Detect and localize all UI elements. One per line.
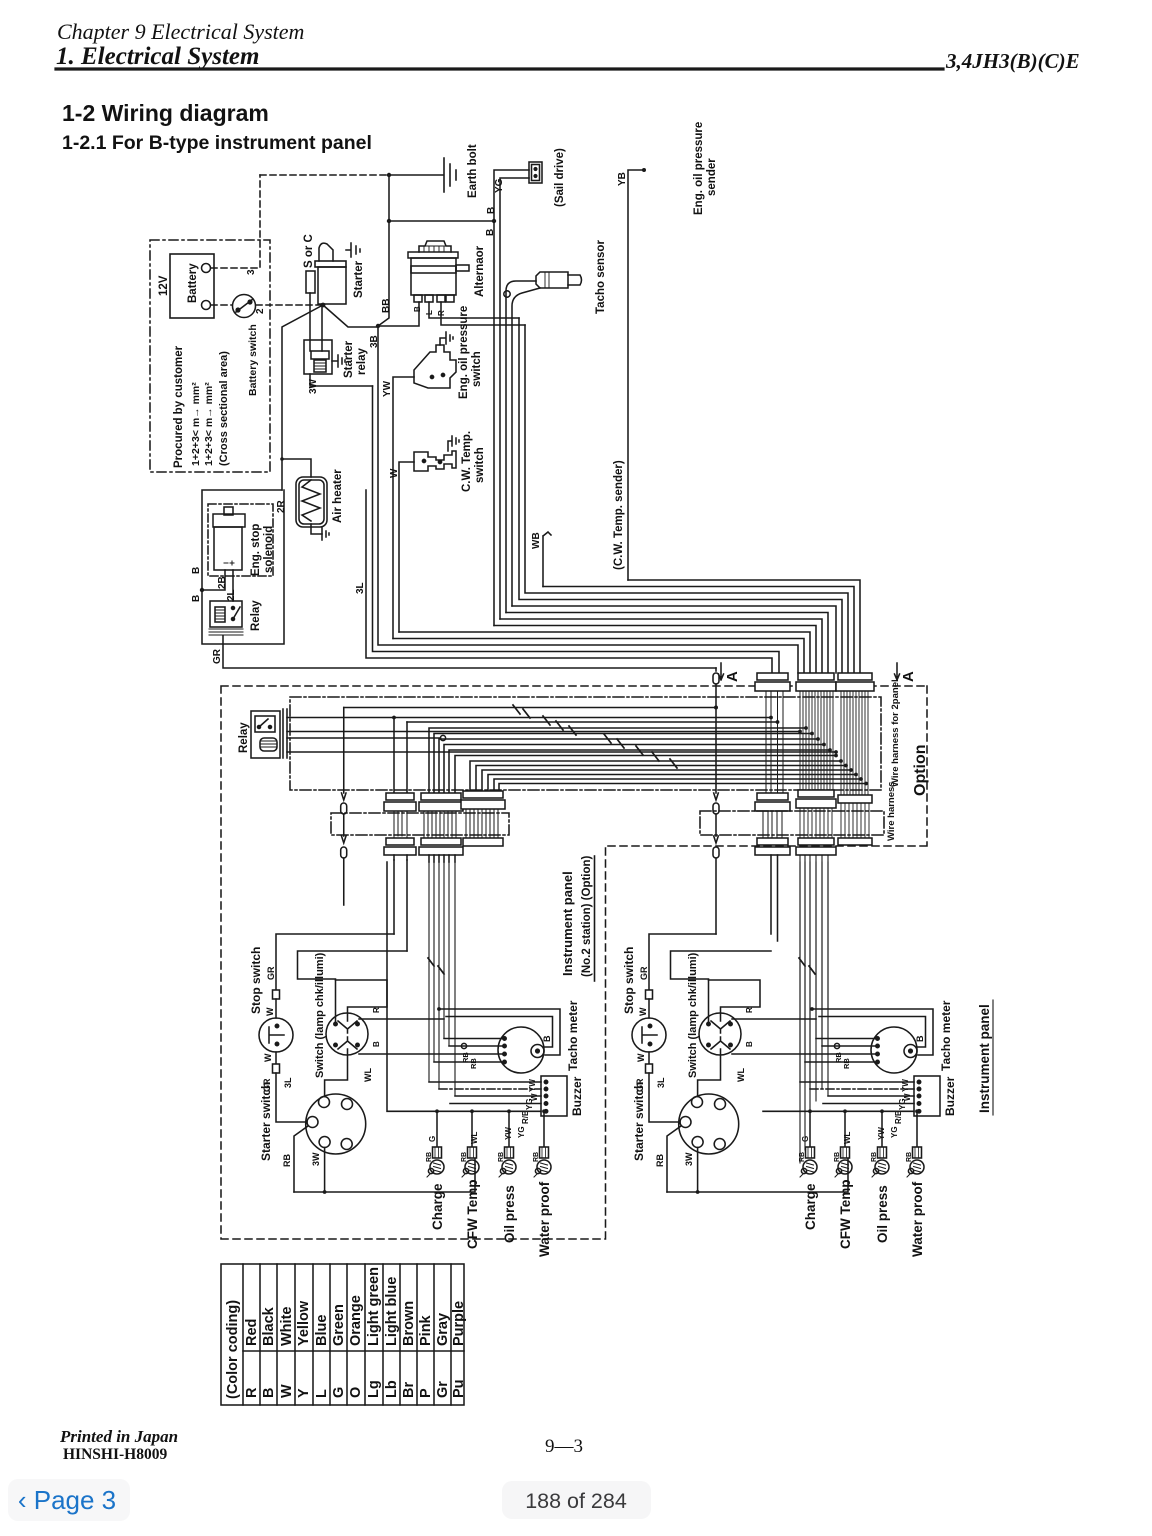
svg-text:GR: GR (639, 966, 649, 980)
eng stop solenoid boundary (208, 504, 273, 576)
ground starter (346, 243, 360, 257)
svg-text:Battery switch: Battery switch (247, 324, 259, 396)
wire tacho B loop inner (819, 1017, 926, 1048)
svg-text:G: G (331, 1387, 347, 1398)
node B-wire junction (200, 588, 204, 592)
svg-text:YG: YG (517, 1126, 526, 1138)
svg-text:B: B (191, 567, 202, 574)
svg-text:WL: WL (470, 1131, 479, 1144)
connector tick stop switch upper (273, 990, 280, 999)
lamp feeds (436, 1111, 438, 1147)
svg-text:R: R (372, 1007, 381, 1013)
svg-text:Green: Green (331, 1304, 347, 1346)
svg-text:RB: RB (469, 1058, 478, 1069)
svg-text:Instrument panel: Instrument panel (977, 1004, 992, 1113)
node wire2 at stack D (776, 720, 780, 724)
stop switch S4 (259, 1018, 293, 1052)
wire alternator R terminal (441, 302, 525, 325)
svg-text:B: B (413, 306, 422, 312)
node starter battery node (321, 303, 326, 308)
eng stop solenoid enclosure (202, 490, 284, 644)
eng oil pressure switch S2 (414, 345, 456, 388)
svg-text:switch: switch (471, 351, 483, 387)
svg-text:Stop switch: Stop switch (622, 947, 636, 1014)
wire single chain right GR (713, 668, 719, 934)
svg-text:Switch (lamp chk/illumi): Switch (lamp chk/illumi) (687, 952, 699, 1078)
svg-text:2R: 2R (276, 499, 287, 513)
nodes stack F diagonal (839, 759, 868, 785)
svg-text:B: B (191, 595, 202, 602)
svg-text:YW: YW (382, 380, 393, 397)
connector tick stop switch lower (273, 1064, 280, 1073)
svg-text:B: B (486, 207, 497, 214)
cw temp switch label (461, 431, 486, 492)
wire taps to buzzer (800, 1082, 914, 1104)
svg-text:A: A (724, 671, 741, 682)
svg-text:Orange: Orange (348, 1295, 364, 1346)
lamp Oil press (872, 1147, 889, 1177)
svg-text:YB: YB (617, 172, 628, 186)
svg-text:Printed in Japan: Printed in Japan (59, 1427, 178, 1446)
wire switch lower stem to starter (698, 1049, 721, 1097)
svg-text:3L: 3L (656, 1077, 666, 1088)
wire starter node to BB node (323, 305, 378, 327)
lamp CFW Temp (835, 1147, 852, 1177)
svg-text:A: A (900, 671, 917, 682)
PAGE HEADER (56, 19, 1080, 73)
alternator pin labels (413, 306, 446, 316)
wire battery switch to starter node (256, 304, 322, 306)
svg-text:B: B (745, 1041, 754, 1047)
connector chain left arrows and sleeves (341, 793, 347, 905)
wire stop switch to starter (649, 1073, 680, 1122)
wire GR to stop switch (649, 934, 716, 990)
svg-text:Lg: Lg (366, 1380, 382, 1398)
svg-text:RB: RB (655, 1154, 665, 1167)
wire switch lower stem to starter (325, 1049, 348, 1097)
wire tap dash-dot (810, 1088, 914, 1090)
svg-text:12V: 12V (158, 275, 170, 296)
svg-text:Water proof: Water proof (910, 1181, 925, 1257)
wire tap dash-dot (439, 1088, 541, 1090)
relay K2 eng-stop (209, 601, 243, 635)
wire B horizontal to sail-drive wire (389, 220, 494, 222)
svg-text:W: W (263, 1053, 273, 1062)
wire relay coil a (287, 737, 441, 739)
svg-text:Procured by customer: Procured by customer (173, 345, 185, 468)
wire relay coil b (287, 751, 836, 753)
wire top dashed rail (260, 174, 389, 176)
wire air heater feed (282, 459, 311, 477)
svg-text:1-2 Wiring diagram: 1-2 Wiring diagram (62, 100, 269, 126)
crossover ticks bundle (799, 958, 815, 974)
svg-text:G: G (801, 1136, 810, 1142)
svg-text:WL: WL (736, 1068, 746, 1082)
svg-text:Tacho meter: Tacho meter (566, 1000, 580, 1071)
svg-text:solenoid: solenoid (263, 526, 275, 573)
wire taps to tacho (434, 1039, 505, 1063)
svg-text:Starter switch: Starter switch (632, 1082, 646, 1161)
wire W stair (399, 632, 810, 673)
alternator G1 (408, 241, 469, 302)
svg-text:Y: Y (296, 1388, 312, 1398)
svg-text:YG: YG (898, 1098, 907, 1110)
connector tick stop switch upper (646, 990, 653, 999)
crossover ticks bundle (428, 958, 444, 974)
wire 3W from starter (324, 1148, 326, 1193)
connector stack F (836, 673, 874, 845)
crossover ticks chain 1 (513, 705, 576, 735)
svg-text:W: W (279, 1384, 295, 1398)
svg-text:Tacho meter: Tacho meter (939, 1000, 953, 1071)
ground earth bolt (444, 158, 456, 192)
svg-text:Oil press: Oil press (502, 1185, 517, 1243)
svg-text:Starter switch: Starter switch (259, 1082, 273, 1161)
svg-text:1+2+3< m→ mm²: 1+2+3< m→ mm² (190, 382, 202, 466)
svg-text:Gray: Gray (435, 1313, 451, 1346)
wire stack A1 GR down (393, 860, 395, 934)
svg-text:3,4JH3(B)(C)E: 3,4JH3(B)(C)E (945, 49, 1080, 73)
svg-text:HINSHI-H8009: HINSHI-H8009 (63, 1446, 167, 1463)
air heater R1 (296, 477, 327, 527)
svg-text:W: W (638, 1007, 648, 1016)
wire W to cw temp switch (399, 462, 414, 632)
starter relay K1 (304, 340, 332, 374)
svg-text:Earth bolt: Earth bolt (467, 144, 479, 198)
tacho meter P1 (498, 1027, 544, 1073)
lamp-check switch S5 (326, 1013, 368, 1055)
node wire1 tee (392, 716, 396, 720)
connector ring on tacho wire (834, 1043, 839, 1048)
svg-text:R: R (244, 1387, 260, 1398)
starter switch S6 (306, 1094, 366, 1154)
svg-text:G: G (428, 1136, 437, 1142)
svg-text:3W: 3W (308, 378, 319, 394)
svg-text:WL: WL (363, 1068, 373, 1082)
svg-text:RB: RB (834, 1152, 841, 1162)
wire option feed top (344, 707, 716, 709)
node feed joins GR chain (714, 706, 718, 710)
wire 3L vertical (366, 490, 772, 673)
wire harness band left (331, 813, 509, 835)
connector tick stop switch lower (646, 1064, 653, 1073)
svg-text:1+2+3< m→ mm²: 1+2+3< m→ mm² (203, 382, 215, 466)
svg-text:3W: 3W (684, 1152, 694, 1166)
svg-text:YG: YG (890, 1126, 899, 1138)
svg-text:Wire harness: Wire harness (886, 781, 897, 841)
node contact2 at stack E (798, 730, 802, 734)
svg-text:RB: RB (282, 1154, 292, 1167)
svg-text:Blue: Blue (314, 1315, 330, 1346)
wire B bus from rail down (388, 175, 390, 221)
wire lamp common R/B (387, 862, 541, 1111)
svg-text:O: O (348, 1387, 364, 1398)
customer-supply boundary box (150, 240, 270, 472)
option inner harness boundary (290, 697, 881, 790)
svg-text:YW: YW (504, 1127, 513, 1140)
wire stop switch lower (275, 1052, 277, 1064)
wire tacho lower stair (512, 606, 836, 673)
wire alternator L terminal (429, 302, 519, 318)
svg-text:(Sail drive): (Sail drive) (554, 148, 566, 207)
svg-text:P: P (418, 1388, 434, 1398)
lamp Water proof (907, 1147, 924, 1177)
wire starter node to solenoid-box drop (282, 305, 323, 490)
tacho sensor ring (504, 291, 510, 297)
wire alt L stair (519, 318, 842, 673)
page footer imprint (59, 1427, 583, 1463)
lamp feeds (809, 1111, 811, 1147)
wire solenoid 2L lead to relay (232, 570, 234, 601)
svg-text:R/B: R/B (894, 1110, 903, 1124)
node coil b at stack F (834, 750, 838, 754)
stop switch S4 (632, 1018, 666, 1052)
ground eng oil pressure switch (440, 332, 453, 345)
wire tacho upper stair (506, 613, 828, 674)
svg-text:Br: Br (401, 1382, 417, 1398)
svg-text:Light blue: Light blue (384, 1277, 400, 1346)
lamp Oil press (499, 1147, 516, 1177)
wire relay contact 1 (287, 717, 771, 719)
svg-text:Tacho sensor: Tacho sensor (595, 240, 607, 314)
wire BB to alternator B terminal (378, 302, 419, 326)
svg-text:RB: RB (426, 1152, 433, 1162)
svg-text:L: L (314, 1389, 330, 1398)
procured-by-customer note (173, 345, 230, 468)
crossover ticks chain 2 (604, 734, 677, 768)
wire switch R contact taps (732, 1018, 816, 1020)
svg-text:CFW Temp: CFW Temp (838, 1180, 853, 1250)
wire lamp common R/B (763, 1110, 914, 1112)
svg-text:C.W. Temp.: C.W. Temp. (461, 431, 473, 492)
svg-text:Alternaor: Alternaor (474, 245, 486, 297)
wire 3W stair (373, 386, 780, 673)
wire sail upper stair (494, 626, 816, 674)
svg-text:2: 2 (255, 308, 266, 314)
wire bundle E continuation (800, 862, 828, 1096)
svg-text:W: W (636, 1053, 646, 1062)
wire rail to earth bolt (389, 174, 443, 176)
svg-text:Switch (lamp chk/illumi): Switch (lamp chk/illumi) (314, 952, 326, 1078)
svg-text:W: W (389, 468, 400, 478)
svg-text:WL: WL (843, 1131, 852, 1144)
svg-text:Purple: Purple (451, 1301, 467, 1346)
svg-text:Relay: Relay (250, 600, 262, 631)
harness wires stack C to stack F (470, 761, 866, 791)
connector ring on tacho wire (461, 1043, 466, 1048)
connector stack E (796, 673, 836, 1163)
svg-text:Eng. stop: Eng. stop (250, 524, 262, 576)
wire switch top stem S-loop (336, 980, 388, 1021)
svg-text:Charge: Charge (430, 1183, 445, 1230)
viewer footer bar (8, 1479, 651, 1521)
svg-text:(No.2 station) (Option): (No.2 station) (Option) (581, 855, 593, 977)
svg-text:Option: Option (912, 744, 929, 796)
lamp CFW Temp (462, 1147, 479, 1177)
node YB end dot (642, 168, 646, 172)
color coding table (221, 1264, 464, 1405)
node contact1 at stack D (769, 716, 773, 720)
wire to lamp-check switch loop (298, 951, 408, 1022)
svg-text:RB: RB (799, 1152, 806, 1162)
svg-text:Wire harness for 2panel: Wire harness for 2panel (890, 679, 901, 787)
cw temp switch S3 (414, 451, 456, 471)
wire YB from sender (628, 170, 643, 580)
wire tacho sensor pair lower (512, 288, 540, 606)
label instrument panel no2 (560, 855, 593, 977)
svg-text:Buzzer: Buzzer (570, 1076, 584, 1116)
svg-text:WB: WB (531, 532, 542, 549)
battery BT1 12V (170, 254, 214, 318)
svg-text:Eng. oil pressure: Eng. oil pressure (458, 306, 470, 399)
svg-text:RB: RB (906, 1152, 913, 1162)
svg-text:188 of 284: 188 of 284 (525, 1489, 627, 1513)
wire taps to buzzer (429, 1082, 541, 1104)
node B junction (387, 219, 391, 223)
svg-text:R: R (745, 1007, 754, 1013)
svg-text:Brown: Brown (401, 1301, 417, 1346)
battery switch S1 (233, 295, 256, 318)
svg-text:Gr: Gr (435, 1381, 451, 1398)
svg-text:Starter: Starter (353, 260, 365, 298)
lamp-check switch S5 (699, 1013, 741, 1055)
svg-text:White: White (279, 1307, 295, 1346)
relay K3 connector bars (283, 709, 287, 758)
wire battery+ to top dashed rail (211, 175, 260, 268)
wire RB from starter (294, 1126, 308, 1192)
svg-text:3L: 3L (355, 582, 366, 594)
svg-text:3: 3 (246, 269, 257, 275)
node rail junction (387, 173, 391, 177)
svg-text:1. Electrical System: 1. Electrical System (56, 43, 259, 70)
svg-text:GR: GR (212, 648, 223, 664)
svg-text:3L: 3L (283, 1077, 293, 1088)
wire stack A wire2 vertical (406, 722, 408, 793)
svg-text:B: B (372, 1041, 381, 1047)
svg-text:S or C: S or C (303, 234, 315, 268)
svg-text:9—3: 9—3 (545, 1436, 583, 1457)
lamp Charge (800, 1147, 817, 1177)
wire stack A wire2 (407, 721, 778, 723)
svg-text:RB: RB (871, 1152, 878, 1162)
svg-text:Pu: Pu (451, 1379, 467, 1398)
svg-text:YW: YW (528, 1079, 537, 1092)
svg-text:Buzzer: Buzzer (943, 1076, 957, 1116)
tacho meter P1 (871, 1027, 917, 1073)
wire stop switch lower (648, 1052, 650, 1064)
wire battery- to battery switch (211, 304, 232, 306)
ground cw temp switch (448, 436, 459, 451)
wire sail lower stair (500, 619, 822, 673)
svg-text:Lb: Lb (384, 1380, 400, 1398)
wire tacho sensor pair upper (506, 281, 536, 613)
svg-text:YG: YG (494, 178, 505, 193)
wire YB stair (628, 580, 860, 673)
svg-text:RB: RB (842, 1058, 851, 1069)
svg-text:B: B (485, 229, 496, 236)
connector stack A upper collar (384, 793, 416, 860)
wire WB stair (543, 587, 854, 674)
wire taps to tacho (805, 1039, 878, 1063)
sail drive connector J1 (529, 162, 542, 183)
svg-text:RB: RB (461, 1152, 468, 1162)
svg-text:Red: Red (244, 1319, 260, 1346)
section marker A right (895, 663, 900, 680)
wire to lamp-check switch loop (671, 951, 772, 1022)
wire single to connector chain left (343, 708, 345, 794)
svg-text:RB: RB (533, 1152, 540, 1162)
svg-text:YG: YG (525, 1098, 534, 1110)
lamp Water proof (534, 1147, 551, 1177)
svg-text:sender: sender (706, 158, 718, 196)
svg-text:Pink: Pink (418, 1314, 434, 1346)
svg-text:Instrument panel: Instrument panel (560, 871, 575, 976)
wire 3W from starter relay (310, 374, 373, 386)
wire alt R stair (525, 325, 848, 673)
connector stack C collar (461, 791, 505, 846)
ground starter relay (332, 355, 345, 367)
wire solenoid 2B lead (202, 570, 225, 590)
svg-text:Air heater: Air heater (332, 469, 344, 523)
option harness boundary box (221, 686, 927, 1239)
wire air heater to ground (311, 524, 322, 534)
starter relay label (343, 340, 368, 378)
tacho sensor B1 (536, 272, 582, 288)
svg-text:R/B: R/B (521, 1110, 530, 1124)
node air heater tap (280, 457, 284, 461)
svg-text:Charge: Charge (803, 1183, 818, 1230)
relay K3 option (251, 711, 280, 758)
svg-text:(Color coding): (Color coding) (225, 1300, 241, 1399)
connector stack D (755, 673, 790, 941)
wire 3W from starter (697, 1148, 699, 1193)
svg-text:‹ Page 3: ‹ Page 3 (18, 1485, 116, 1515)
wire B bus down to BB node (378, 221, 389, 326)
section marker A left (719, 663, 724, 680)
svg-text:BB: BB (381, 299, 392, 313)
svg-text:Water proof: Water proof (537, 1181, 552, 1257)
starter switch S6 (679, 1094, 739, 1154)
svg-text:CFW Temp: CFW Temp (465, 1180, 480, 1250)
svg-text:YW: YW (877, 1127, 886, 1140)
buzzer BZ (541, 1076, 567, 1116)
eng stop solenoid label (250, 524, 275, 576)
wire switch top stem S-loop (709, 980, 761, 1021)
svg-text:Light green: Light green (366, 1267, 382, 1346)
wire YW stair (393, 639, 804, 674)
svg-text:W: W (265, 1007, 275, 1016)
svg-text:Eng. oil pressure: Eng. oil pressure (693, 122, 705, 215)
wire stack A2 down (406, 860, 408, 951)
wire GR from relay K2 (223, 636, 716, 668)
wire stack A wire1 vertical (393, 718, 395, 794)
wire bundle B continuation (429, 862, 455, 1096)
svg-text:Black: Black (261, 1306, 277, 1346)
svg-text:(C.W. Temp. sender): (C.W. Temp. sender) (613, 460, 625, 570)
svg-text:B: B (261, 1388, 277, 1398)
wire S-terminal to starter relay (309, 293, 311, 351)
svg-text:Oil press: Oil press (875, 1185, 890, 1243)
wire sail drive upper (494, 170, 529, 626)
connector stack B upper collar (419, 793, 463, 862)
wire starter loop bottom (294, 1157, 475, 1192)
eng oil pressure sender label (693, 122, 718, 215)
svg-text:(Cross sectional area): (Cross sectional area) (218, 351, 230, 466)
svg-text:B: B (915, 1035, 925, 1042)
svg-text:2L: 2L (226, 589, 237, 601)
wire stop switch to starter (276, 1073, 307, 1122)
eng oil pressure switch label (458, 306, 483, 399)
